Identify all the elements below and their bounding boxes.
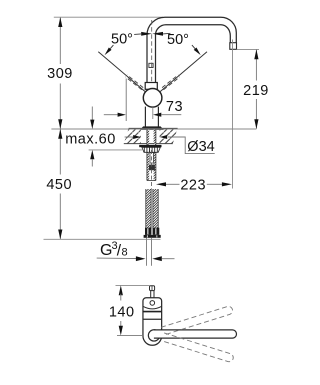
ball joint of mixer bbox=[143, 89, 162, 108]
50deg leader arrow right bbox=[192, 45, 201, 55]
svg-text:450: 450 bbox=[46, 177, 72, 193]
50deg swing line right bbox=[159, 52, 207, 92]
threaded shank through deck bbox=[147, 130, 156, 181]
73 extension line below ball bbox=[152, 107, 154, 119]
top view dashed swung spout up bbox=[161, 305, 234, 335]
dashed tilted tube edges right bbox=[162, 75, 178, 88]
50deg swing line left bbox=[98, 52, 146, 92]
top view lever pivot circle bbox=[150, 301, 155, 306]
dimension 140 bbox=[109, 285, 150, 335]
50deg dimension arrows at riser bbox=[141, 32, 163, 36]
top view spout hub cap circle bbox=[148, 330, 159, 341]
dimension 73 bbox=[104, 79, 183, 122]
top view spout bar (solid position) bbox=[154, 330, 237, 338]
top view lever tip bbox=[150, 286, 155, 298]
hose end fittings G3/8 bbox=[144, 228, 161, 238]
cartridge detail box inside riser bbox=[149, 63, 153, 67]
mounting nut under washer bbox=[142, 147, 160, 152]
top view body separation lines bbox=[143, 311, 162, 313]
wire 450 bottom extension line bbox=[44, 238, 161, 240]
ball socket collar bbox=[145, 83, 157, 90]
flexible connection hoses bbox=[146, 189, 158, 229]
hose tails below fittings bbox=[146, 238, 148, 266]
deck top extension line (shared by 309/450/max60/219) bbox=[51, 128, 256, 130]
svg-text:max.60: max.60 bbox=[65, 132, 116, 148]
svg-text:219: 219 bbox=[243, 83, 269, 99]
50deg leader arrow left bbox=[105, 45, 114, 55]
dimension diameter 34 hole bbox=[125, 135, 215, 155]
top view faucet body bbox=[143, 298, 162, 346]
faucet body below ball bbox=[144, 107, 146, 127]
svg-text:140: 140 bbox=[109, 304, 135, 320]
svg-text:50°: 50° bbox=[111, 32, 133, 48]
label G 3/8 thread bbox=[97, 240, 175, 261]
dimension 223 bbox=[156, 40, 233, 194]
svg-text:223: 223 bbox=[180, 178, 206, 194]
top view dashed swung spout down bbox=[162, 333, 235, 363]
dashed centerline through shank bbox=[151, 150, 153, 189]
countertop deck hatched section bbox=[124, 128, 178, 143]
spout aerator tip cap bbox=[230, 43, 237, 50]
wire top extension line from spout top to 309 dimension bbox=[54, 16, 163, 18]
spout tube outline (U shape) bbox=[147, 17, 236, 83]
dimension max.60 bbox=[65, 107, 142, 167]
dimension 219 bbox=[237, 49, 269, 129]
dashed tilted tube edges left bbox=[126, 75, 180, 90]
svg-text:309: 309 bbox=[47, 66, 73, 82]
dimension 309 bbox=[47, 17, 73, 129]
mounting stud and nut inside shank bbox=[149, 153, 155, 171]
dimension 450 bbox=[46, 129, 72, 239]
svg-text:50°: 50° bbox=[167, 32, 189, 48]
svg-text:Ø34: Ø34 bbox=[187, 139, 214, 155]
riser dashed centerline bbox=[151, 20, 153, 88]
top view dome arc bbox=[143, 306, 161, 308]
svg-text:8: 8 bbox=[122, 247, 128, 259]
washer under deck bbox=[139, 145, 161, 147]
svg-text:73: 73 bbox=[166, 99, 183, 115]
escutcheon base plate bbox=[141, 127, 163, 130]
